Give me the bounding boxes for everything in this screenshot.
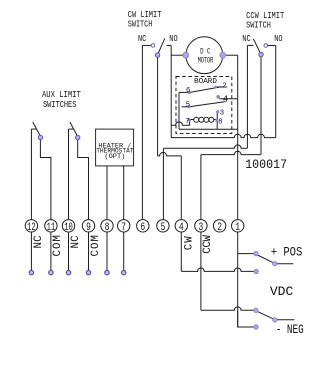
- svg-text:SWITCH: SWITCH: [128, 19, 153, 30]
- wire: node end to NEG lower dot: [238, 310, 256, 327]
- terminal numbers: [27, 222, 240, 234]
- switch blade CCW: [253, 39, 261, 55]
- aux1 pole jog to terminal 11: [40, 138, 51, 220]
- wire: VDC line: [181, 268, 256, 271]
- svg-text:2: 2: [222, 83, 226, 91]
- svg-text:7: 7: [185, 118, 189, 126]
- aux2 pole jog to terminal 9: [78, 138, 89, 220]
- rotated terminal labels: [33, 234, 214, 256]
- svg-text:3: 3: [220, 109, 224, 117]
- wire: CW NO tick: [167, 44, 172, 46]
- aux2 tick: [69, 128, 75, 130]
- wire: CCW NO riser: [275, 46, 277, 138]
- svg-text:NC: NC: [242, 33, 251, 44]
- right side connector dots: [254, 251, 258, 255]
- svg-text:4: 4: [179, 222, 184, 234]
- wire: terminal 3 riser: [200, 155, 202, 220]
- svg-text:AUX LIMIT: AUX LIMIT: [42, 89, 81, 100]
- svg-text:COM: COM: [90, 234, 102, 256]
- wire: CW pole riser: [157, 55, 159, 156]
- wire: +POS lead: [275, 263, 294, 265]
- svg-text:CW: CW: [184, 235, 196, 250]
- wire: board bottom lead: [179, 128, 238, 130]
- svg-text:4: 4: [223, 94, 228, 104]
- AUX switch 2: NC riser to terminal 10: [68, 129, 70, 219]
- svg-text:NC: NC: [70, 235, 82, 249]
- pin 4 lead exits box: [219, 98, 237, 100]
- svg-text:100017: 100017: [245, 158, 287, 172]
- contact circle CCW NO: [264, 44, 268, 48]
- svg-text:2: 2: [217, 222, 222, 234]
- switch blade +POS: [258, 255, 275, 263]
- wire: heater to terminal 7: [123, 166, 125, 220]
- wire: terminal 4 riser upper: [180, 156, 182, 220]
- relay pin dots: [188, 86, 220, 122]
- heater box text: [96, 142, 133, 160]
- endpoint dots below aux terminals: [29, 270, 33, 274]
- aux2 blade: [70, 122, 78, 136]
- wire: CW NO riser: [170, 45, 172, 137]
- wire: CCW pole riser: [260, 55, 262, 155]
- svg-text:NO: NO: [169, 33, 178, 44]
- svg-text:5: 5: [186, 102, 190, 110]
- svg-text:6: 6: [186, 87, 190, 95]
- svg-text:BOARD: BOARD: [194, 78, 218, 86]
- svg-text:12: 12: [27, 222, 36, 234]
- svg-text:- NEG: - NEG: [276, 323, 304, 337]
- wire: line1 NO bus y=137.6 with hops: [171, 134, 276, 137]
- svg-text:7: 7: [121, 222, 126, 234]
- aux1 tick: [31, 128, 37, 130]
- wire: CW pole jog to terminal 4 (hop over t5 riser): [158, 152, 182, 155]
- blue connection dots: [29, 270, 126, 274]
- switch blade CW: [158, 38, 165, 55]
- svg-text:11: 11: [47, 222, 56, 234]
- texts: [42, 9, 284, 110]
- wire: motor right to node: [223, 54, 238, 56]
- wire: pin6 riser down: [178, 92, 180, 129]
- wire: CW NC riser to terminal 6: [141, 45, 143, 219]
- svg-text:SWITCH: SWITCH: [246, 20, 271, 31]
- svg-text:VDC: VDC: [270, 285, 294, 299]
- contact circle CW NC: [151, 44, 155, 48]
- relay blade 6 to 2: [189, 87, 221, 93]
- wire: CCW NC tick: [247, 44, 253, 46]
- relay blade 5 to 4: [189, 102, 225, 107]
- heater thermostat box: [96, 129, 134, 166]
- relay pin numbers: [185, 83, 228, 127]
- wire: CCW NO tick: [268, 45, 276, 47]
- motor circle: [186, 37, 223, 74]
- switch blade -NEG: [258, 312, 275, 320]
- relay board dashed box: [176, 77, 232, 134]
- pin 2 tick: [215, 86, 227, 88]
- svg-text:+ POS: + POS: [271, 245, 303, 260]
- terminal stub wires below 12..7: [30, 232, 32, 270]
- svg-text:5: 5: [161, 222, 166, 234]
- relay coil: [190, 119, 194, 121]
- label D C / MOTOR: [198, 46, 214, 65]
- svg-text:9: 9: [86, 222, 91, 234]
- pin 3 to pin 8 link: [216, 113, 218, 120]
- svg-text:CCW: CCW: [202, 234, 214, 253]
- relay contact 6-2: pin6 tick: [179, 91, 188, 93]
- svg-text:10: 10: [64, 222, 73, 234]
- wire: line B terminal3 to CCW pole y=154.5: [201, 151, 261, 154]
- terminal circles 12..1: [25, 220, 244, 232]
- wire: terminal 5 riser from line A: [162, 148, 164, 219]
- wire: pin8 drop to board bottom lead: [216, 120, 218, 130]
- wire: CCW NC riser: [246, 45, 248, 148]
- wire: NEG line: [201, 307, 256, 310]
- wire: terminal 4 riser lower: [180, 232, 182, 271]
- svg-text:NC: NC: [138, 33, 147, 44]
- svg-text:(OPT): (OPT): [104, 153, 125, 160]
- wire: -NEG lead: [275, 319, 295, 321]
- svg-text:3: 3: [199, 222, 204, 234]
- svg-text:NC: NC: [33, 235, 45, 249]
- svg-text:8: 8: [218, 118, 222, 126]
- wire: CW NO to motor left: [171, 54, 186, 56]
- wire: line A terminal5 to CCW NC y=148.3: [163, 145, 247, 148]
- AUX switch 1: NC riser to terminal 12: [30, 129, 32, 219]
- svg-text:1: 1: [235, 222, 240, 234]
- svg-text:8: 8: [105, 222, 110, 234]
- svg-text:SWITCHES: SWITCHES: [43, 99, 77, 110]
- relay contact 5-4: pin5 tick: [182, 106, 189, 108]
- svg-text:NO: NO: [274, 33, 283, 44]
- svg-text:COM: COM: [52, 234, 64, 256]
- wire: CW NC tick: [142, 44, 151, 46]
- svg-text:6: 6: [140, 222, 145, 234]
- switch pole dots: [38, 52, 263, 139]
- svg-text:MOTOR: MOTOR: [198, 55, 214, 65]
- wire: main node vertical (motor right / pin4 / terminal 1): [237, 55, 239, 219]
- wire: +POS branch: [238, 253, 256, 255]
- aux1 blade: [33, 122, 41, 136]
- wire: heater to terminal 8: [106, 166, 108, 220]
- wire: coil left to CW NO node (hop over pin6 riser): [171, 120, 189, 125]
